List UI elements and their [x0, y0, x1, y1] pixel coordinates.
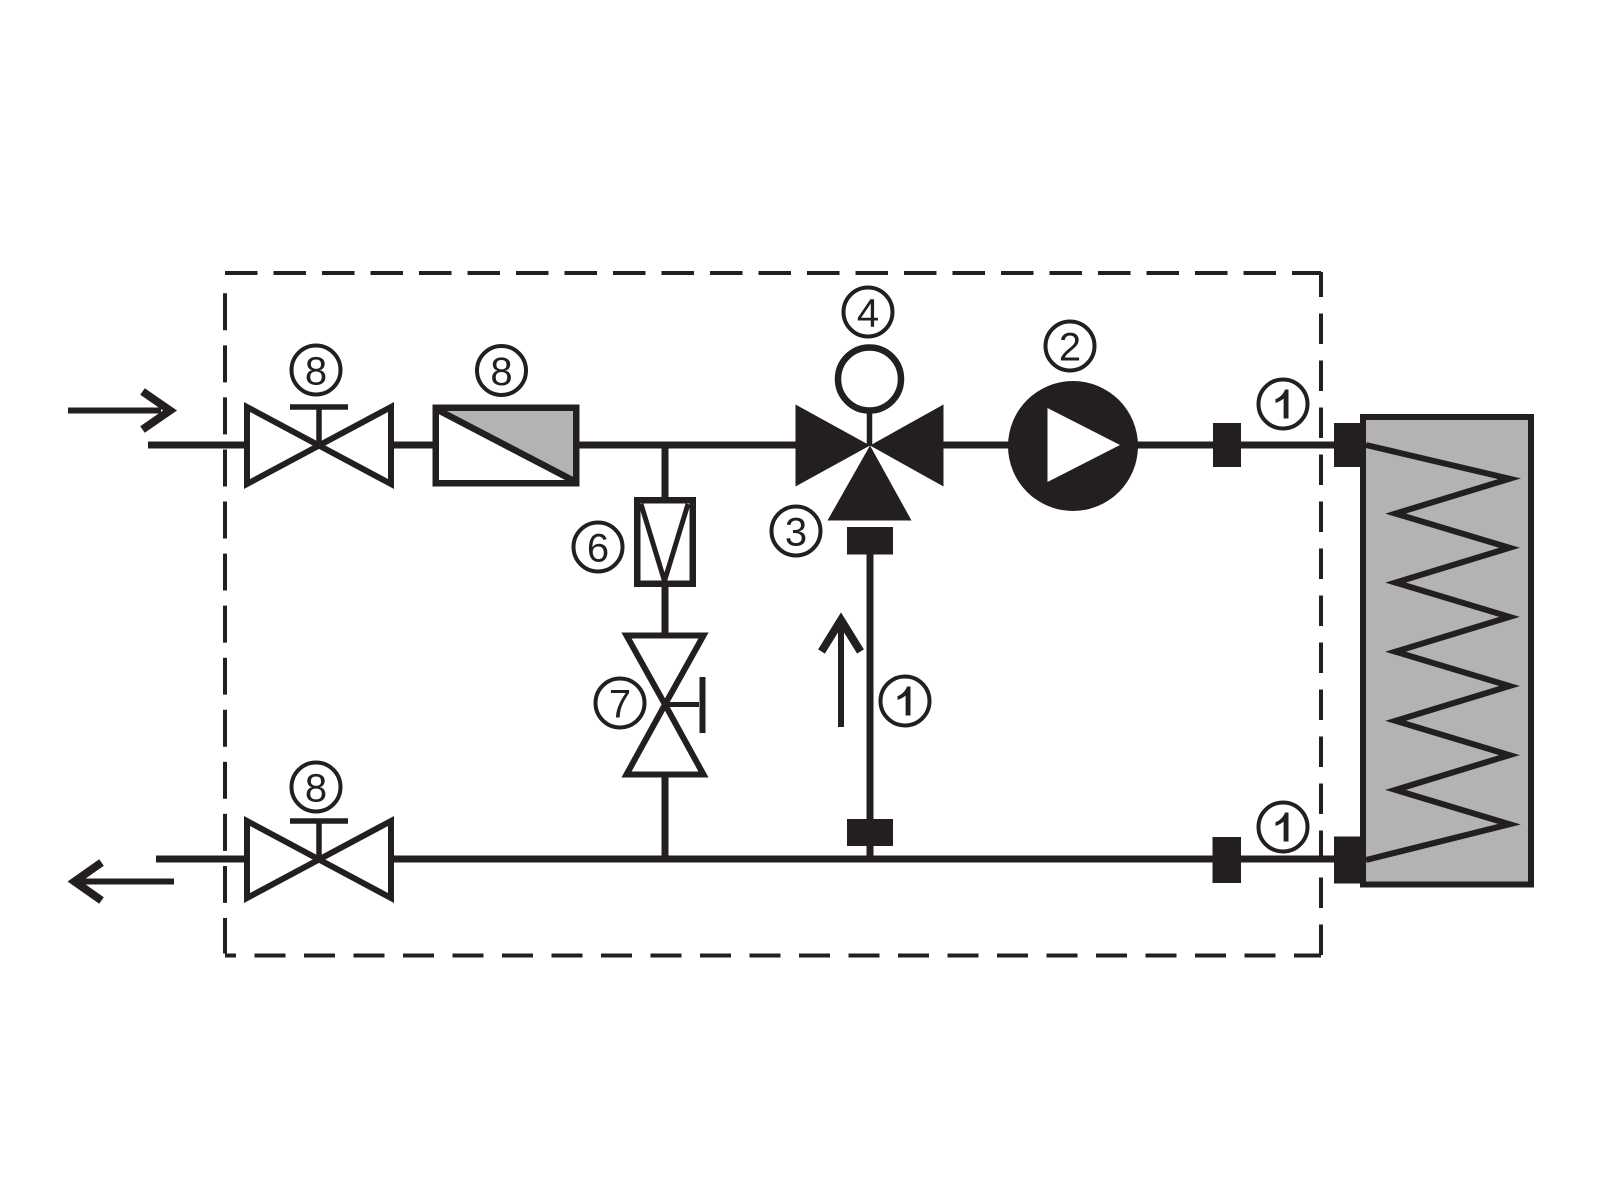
wire: check valve to balancing valve	[662, 584, 669, 634]
wire: supply pipe valve-to-filter	[392, 442, 434, 449]
heat exchanger	[1363, 417, 1531, 885]
label 1 (supply union)	[1259, 380, 1308, 429]
heat exchanger connector (return)	[1334, 837, 1365, 884]
dashed enclosure (mixing unit boundary)	[225, 272, 1321, 956]
label 8 (strainer)	[477, 346, 526, 395]
svg-text:3: 3	[785, 510, 807, 554]
wire: supply pipe mixing-valve-to-pump	[942, 442, 1010, 449]
label 7 (balancing valve)	[596, 679, 645, 728]
svg-text:7: 7	[609, 682, 631, 726]
connector square bypass-to-return	[847, 819, 893, 846]
label 1 (return union)	[1259, 803, 1308, 852]
wire: branch down from supply pipe	[662, 445, 669, 500]
label 8 (supply shut-off valve)	[292, 346, 341, 395]
wire: supply pipe inlet stub	[148, 442, 246, 449]
svg-text:6: 6	[587, 526, 609, 570]
balancing valve 7	[627, 636, 704, 775]
union fitting 1 (return)	[1213, 837, 1242, 883]
bypass flow arrow (up)	[822, 620, 861, 727]
inlet flow arrow	[68, 392, 170, 430]
label 1 (bypass pipe)	[881, 677, 930, 726]
svg-text:8: 8	[305, 349, 327, 393]
label 3 (mixing valve)	[772, 507, 821, 556]
wire: return pipe	[392, 856, 1336, 863]
svg-text:8: 8	[490, 350, 512, 394]
shut-off valve 8 (supply)	[247, 407, 391, 484]
label 6 (check valve)	[574, 523, 623, 572]
check valve 6	[637, 500, 693, 584]
shut-off valve 8 (return)	[247, 821, 391, 898]
wire: return pipe outlet stub	[156, 856, 246, 863]
heat exchanger connector (supply)	[1334, 423, 1365, 467]
wire: balancing valve down to return pipe	[662, 777, 669, 859]
actuator 4 on mixing valve	[838, 348, 901, 447]
label 4 (actuator)	[844, 288, 893, 337]
label 2 (pump)	[1046, 322, 1095, 371]
wire: supply pipe pump-to-exchanger	[1136, 442, 1336, 449]
pump 2	[1008, 381, 1138, 511]
union fitting 1 (supply)	[1213, 423, 1241, 467]
wire: supply pipe filter-to-mixing-valve	[578, 442, 797, 449]
strainer/filter 8	[436, 408, 577, 484]
svg-text:8: 8	[305, 766, 327, 810]
svg-text:4: 4	[857, 291, 879, 335]
outlet flow arrow	[75, 863, 175, 901]
wire: bypass pipe	[867, 554, 874, 859]
connector square below mixing valve	[847, 527, 893, 555]
svg-text:2: 2	[1059, 325, 1081, 369]
3-way mixing valve 3	[796, 405, 944, 521]
label 8 (return shut-off valve)	[292, 763, 341, 812]
